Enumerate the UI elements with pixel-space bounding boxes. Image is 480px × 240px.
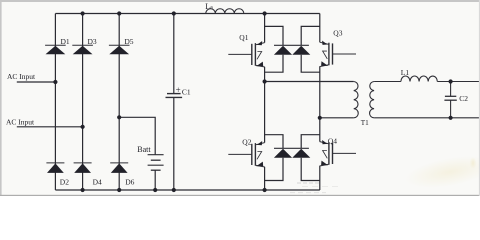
svg-text:D4: D4 — [93, 177, 102, 186]
svg-text:T1: T1 — [361, 119, 369, 127]
svg-text:L1: L1 — [401, 68, 410, 77]
svg-text:D5: D5 — [124, 37, 133, 46]
svg-text:D3: D3 — [88, 37, 97, 46]
svg-text:D2: D2 — [60, 177, 69, 186]
svg-text:+: + — [176, 85, 181, 95]
svg-text:Q1: Q1 — [239, 33, 248, 42]
svg-text:D1: D1 — [61, 37, 70, 46]
svg-text:Batt: Batt — [137, 145, 151, 154]
svg-text:C1: C1 — [182, 88, 191, 97]
svg-text:AC Input: AC Input — [6, 117, 35, 126]
svg-text:Q3: Q3 — [333, 29, 342, 38]
svg-text:La: La — [205, 2, 213, 11]
svg-text:Q2: Q2 — [242, 137, 251, 146]
svg-text:D6: D6 — [125, 177, 134, 186]
svg-text:C2: C2 — [459, 94, 468, 103]
svg-text:AC Input: AC Input — [7, 72, 36, 81]
svg-text:Q4: Q4 — [328, 137, 337, 146]
